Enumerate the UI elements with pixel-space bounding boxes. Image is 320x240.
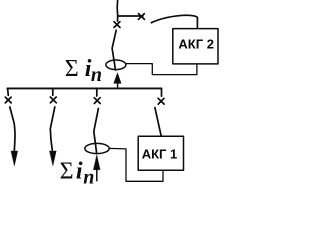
circuit breaker (х) branch 3 <box>94 98 100 104</box>
circuit breaker (х) АКГ 1 branch <box>158 98 164 104</box>
svg-text:n: n <box>91 64 102 86</box>
busbar <box>7 87 161 89</box>
svg-text:Σ: Σ <box>60 158 74 184</box>
current direction arrow in branch 3 <box>94 155 101 181</box>
load arrow branch 2 <box>50 151 57 166</box>
circuit breaker (х) on main feeder <box>114 22 120 28</box>
wire: stub down to branch 2 <box>52 88 54 95</box>
label Σ in (lower) <box>60 158 95 188</box>
wire: tap to АКГ 2 <box>118 15 143 17</box>
CT secondary wire to АКГ 1 <box>109 148 163 181</box>
svg-text:Σ: Σ <box>65 56 79 82</box>
wire: stub down to branch 1 (bus left end) <box>7 88 10 95</box>
svg-text:АКГ 1: АКГ 1 <box>142 147 178 162</box>
switch blade branch 3 <box>94 108 99 153</box>
text АКГ 2 <box>178 37 214 52</box>
text АКГ 1 <box>142 147 178 162</box>
label Σ in (upper) <box>65 56 102 86</box>
CT secondary wire to АКГ 2 <box>126 64 197 75</box>
circuit breaker (х) branch 1 <box>5 97 11 103</box>
switch blade on main feeder <box>112 30 116 70</box>
svg-text:АКГ 2: АКГ 2 <box>178 37 214 52</box>
switch blade to АКГ 1 <box>155 108 161 137</box>
switch blade + line branch 1 <box>10 107 15 151</box>
device box АКГ 1 <box>138 136 183 170</box>
svg-text:i: i <box>76 158 83 184</box>
current transformer CT on main feeder <box>106 60 126 70</box>
wire: incoming feeder vertical <box>116 1 119 22</box>
device box АКГ 2 <box>173 29 218 64</box>
load arrow branch 1 <box>11 151 18 166</box>
circuit breaker (х) branch 2 <box>50 97 56 103</box>
circuit breaker (х) on АКГ 2 tap <box>138 14 144 20</box>
current direction arrow Σin on main feeder <box>114 73 121 88</box>
wire: stub down to branch 3 <box>96 88 98 96</box>
current transformer CT branch 3 <box>85 143 109 153</box>
disconnect switch blade to АКГ 2 <box>151 15 197 28</box>
wire: bus right end stub to АКГ 1 branch <box>161 88 163 96</box>
switch blade + line branch 2 <box>50 107 55 151</box>
svg-text:n: n <box>83 166 94 188</box>
